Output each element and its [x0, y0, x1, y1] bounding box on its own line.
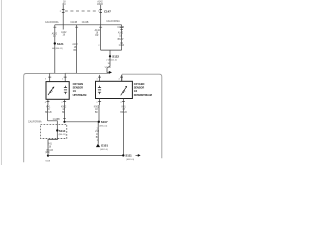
wire left from top [62, 5, 64, 25]
downstream bottom pin 2 [99, 99, 101, 106]
sensing element downstream (bars) [98, 86, 101, 94]
downstream sensor pin 1 [99, 75, 101, 81]
splice S114 [56, 129, 58, 131]
svg-text:(M4-5.0): (M4-5.0) [126, 159, 134, 161]
svg-text:SENSOR: SENSOR [73, 86, 84, 90]
junction dot left of S107 wire [63, 121, 65, 123]
merge of W3 and W4 [101, 50, 122, 56]
wire jog W2 to pin 1 [65, 72, 76, 74]
svg-text:G101: G101 [101, 144, 108, 148]
oxygen sensor 1/1 upstream box [46, 82, 69, 100]
wire S107 down to ground [97, 122, 99, 144]
arrowhead [109, 71, 112, 74]
svg-text:(M4-5.0): (M4-5.0) [99, 125, 107, 127]
svg-text:BK: BK [95, 112, 99, 114]
svg-text:A142: A142 [118, 31, 124, 34]
ground G101 [96, 144, 100, 148]
svg-text:A142: A142 [61, 31, 67, 34]
svg-text:(M4-5.0): (M4-5.0) [100, 149, 108, 151]
downstream bottom pin 3 [122, 99, 124, 106]
svg-text:C116: C116 [119, 45, 125, 47]
svg-text:S114: S114 [59, 129, 66, 133]
connector mark right crossing [99, 10, 102, 13]
svg-text:3: 3 [45, 79, 46, 81]
svg-text:CALIFORNIA: CALIFORNIA [45, 21, 59, 24]
svg-text:2: 2 [98, 45, 99, 47]
svg-text:S122: S122 [112, 54, 119, 58]
svg-text:1: 1 [62, 79, 63, 81]
svg-text:(M4): (M4) [45, 152, 50, 154]
svg-text:DOWNSTREAM: DOWNSTREAM [134, 93, 152, 97]
upstream bottom pin 4 [47, 99, 49, 105]
wire from S122 down with arrow into sensor outline [107, 57, 110, 72]
upstream sensor name text [73, 82, 87, 97]
jog wire into S114 [48, 121, 58, 131]
wire S114 down and jog left [48, 132, 57, 156]
svg-text:S107: S107 [101, 120, 108, 124]
svg-text:2 (M4-11.0): 2 (M4-11.0) [106, 60, 117, 62]
svg-text:C113B: C113B [70, 22, 77, 24]
svg-text:CALIFORNIA: CALIFORNIA [106, 20, 120, 23]
svg-text:C148B: C148B [53, 119, 60, 121]
svg-text:SENSOR: SENSOR [134, 86, 145, 90]
wire jog W1 to pin 3 [50, 72, 55, 74]
wire col4 down to S111 [122, 105, 124, 155]
wire col2 down to S107 line [64, 105, 66, 122]
svg-text:OR: OR [95, 35, 99, 37]
svg-text:2: 2 [60, 11, 61, 13]
svg-text:2: 2 [97, 102, 98, 104]
upstream bottom pin 2 [64, 99, 66, 105]
bottom wire [48, 154, 123, 156]
svg-text:BK: BK [96, 137, 100, 139]
upstream sensor pin 3 [49, 73, 51, 81]
svg-text:A2 (M4-11): A2 (M4-11) [52, 47, 63, 50]
svg-text:BK/W: BK/W [118, 39, 125, 41]
svg-text:2: 2 [61, 102, 62, 104]
svg-text:C113B: C113B [117, 27, 124, 29]
svg-text:UPSTREAM: UPSTREAM [73, 93, 87, 97]
connector mark left crossing [62, 10, 65, 13]
sensing element upstream (bars) [64, 86, 67, 94]
svg-text:C147: C147 [104, 9, 111, 13]
svg-text:A142: A142 [72, 43, 78, 46]
branch bus wire [55, 24, 122, 26]
svg-text:4: 4 [45, 102, 46, 104]
svg-text:C113B: C113B [82, 22, 89, 24]
arrow after S111 [136, 154, 139, 156]
wire right from top [100, 5, 102, 25]
upstream sensor pin 1 [64, 73, 66, 81]
svg-text:BK/LB: BK/LB [45, 112, 52, 114]
wire W1 down-left branch [54, 25, 56, 74]
svg-text:S121: S121 [57, 42, 64, 46]
heater element downstream (diagonal arrow resistor) [121, 86, 127, 95]
oxygen sensor 1/2 downstream box [96, 81, 133, 98]
svg-text:18OR: 18OR [97, 4, 103, 6]
svg-text:4: 4 [118, 79, 119, 81]
svg-text:S111: S111 [125, 154, 132, 158]
big gray component outline right part [121, 74, 123, 81]
wire W3 branch down [100, 25, 102, 50]
svg-text:K902: K902 [61, 106, 67, 108]
downstream sensor pin 4 [121, 75, 123, 81]
svg-text:BK: BK [62, 112, 66, 114]
stub wire below bus at junction [62, 25, 64, 30]
tick marks on branch wires [53, 26, 123, 28]
splice S111 [122, 154, 124, 156]
svg-text:K902: K902 [94, 106, 100, 108]
svg-text:BK: BK [73, 50, 77, 52]
big gray component outline left part [24, 74, 109, 163]
dashed california box [41, 124, 67, 138]
svg-text:BK/LB: BK/LB [120, 112, 127, 114]
svg-text:OXYGEN: OXYGEN [73, 82, 84, 86]
wire col1 down [47, 105, 49, 121]
wire col3 down to S107 [98, 105, 100, 122]
splice S121 [54, 42, 56, 44]
svg-text:CALIFORNIA: CALIFORNIA [28, 120, 42, 123]
svg-text:3: 3 [120, 102, 121, 104]
splice S122 [109, 55, 111, 57]
page left border [0, 0, 2, 165]
splice S107 [98, 121, 100, 123]
S107 horizontal wire [65, 121, 99, 123]
svg-text:1: 1 [96, 79, 97, 81]
svg-text:(M4-15): (M4-15) [59, 134, 67, 136]
downstream sensor name text [134, 82, 152, 97]
wire W2 branch [76, 25, 78, 74]
connector C147 dashed line [65, 10, 100, 12]
svg-text:OXYGEN: OXYGEN [134, 82, 145, 86]
bottom junction dot left [47, 155, 49, 157]
wire W4 branch down [121, 25, 123, 50]
heater element upstream (diagonal arrow resistor) [48, 87, 54, 95]
